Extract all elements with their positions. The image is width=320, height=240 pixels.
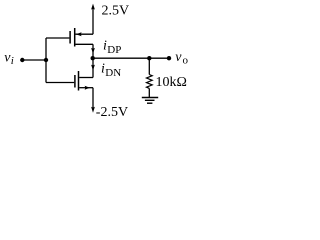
- svg-text:DP: DP: [107, 44, 121, 56]
- node dot output: [91, 56, 95, 60]
- wire PMOS drain down to output node: [92, 44, 94, 58]
- wire output node down to NMOS drain: [92, 58, 94, 77]
- transistor QN (NMOS) channel bar: [78, 71, 80, 91]
- wire resistor to ground: [148, 88, 150, 97]
- svg-text:-2.5V: -2.5V: [96, 105, 128, 120]
- junction dot resistor node: [147, 56, 151, 60]
- svg-text:DN: DN: [105, 67, 121, 79]
- svg-text:v: v: [175, 50, 182, 65]
- junction dot input node: [44, 58, 48, 62]
- wire vertical gate feed: [45, 38, 47, 83]
- svg-text:10kΩ: 10kΩ: [156, 75, 187, 90]
- transistor QP source arrowhead (points left): [76, 32, 82, 36]
- current arrow iDP (down): [91, 48, 95, 54]
- wire output node to vo terminal: [93, 57, 169, 59]
- svg-text:i: i: [11, 55, 14, 67]
- transistor QN source arrowhead (points right): [85, 86, 90, 90]
- svg-text:2.5V: 2.5V: [102, 4, 130, 19]
- wire resistor node down to resistor: [148, 58, 150, 74]
- transistor QP (PMOS) gate bar: [69, 31, 71, 44]
- transistor QN (NMOS) drain lead: [79, 77, 93, 79]
- svg-text:o: o: [183, 55, 189, 67]
- wire NMOS source down to -2.5V arrow: [92, 88, 94, 108]
- transistor QN (NMOS) gate bar: [74, 75, 76, 88]
- transistor QP (PMOS) source lead: [75, 33, 93, 35]
- terminal dot vo: [167, 56, 171, 60]
- transistor QN (NMOS) source lead: [79, 87, 93, 89]
- current arrow iDN (down): [91, 65, 95, 71]
- resistor R1 10k ohm zigzag: [147, 75, 153, 89]
- transistor QP (PMOS) drain lead: [75, 43, 93, 45]
- wire rail up to +2.5V arrow: [92, 8, 94, 34]
- supply arrow up 2.5V: [91, 4, 95, 10]
- transistor QP (PMOS) channel bar: [74, 28, 76, 47]
- wire input from vi terminal to gate junction: [22, 59, 46, 61]
- wire NMOS gate lead: [46, 82, 74, 84]
- wire PMOS gate lead: [46, 37, 69, 39]
- ground symbol: [142, 97, 158, 99]
- supply arrow down -2.5V: [91, 107, 95, 113]
- terminal dot vi: [20, 58, 24, 62]
